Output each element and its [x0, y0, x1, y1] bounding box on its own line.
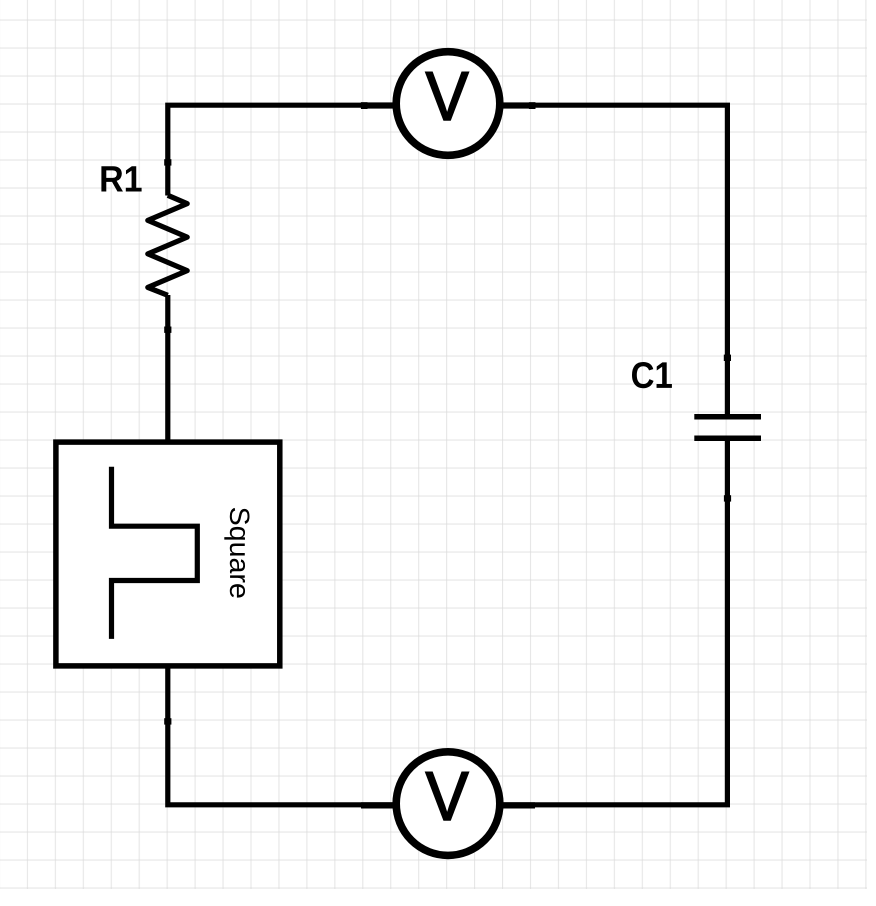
wire right-bottom: from capacitor bottom down and left to bottom voltmeter [503, 440, 728, 805]
wire joint node on left wire [164, 159, 171, 165]
wire: resistor bottom to source box top [165, 295, 170, 440]
wire joint dot right of top voltmeter [529, 102, 536, 109]
wire stub at top voltmeter left terminal [361, 102, 394, 108]
label C1 [632, 362, 672, 388]
wire bottom-left corner: from bottom voltmeter left to source box bottom [168, 668, 394, 805]
wire stub at bottom voltmeter left terminal [361, 802, 394, 808]
wire joint node above capacitor [724, 355, 731, 361]
square-wave source box [56, 442, 280, 666]
label Square (rotated) [224, 508, 249, 598]
wire joint dot left of top voltmeter [361, 102, 368, 109]
square wave glyph [112, 467, 198, 639]
wire joint node below source box [164, 718, 171, 724]
resistor R1 [148, 195, 187, 295]
wire joint node below capacitor [724, 495, 731, 501]
voltmeter V1 (top) [396, 52, 500, 156]
label R1 [101, 166, 141, 191]
wire stub at top voltmeter right terminal [502, 102, 535, 108]
wire top-left corner: from resistor top up and right to voltmeter [168, 105, 394, 195]
wire stub at bottom voltmeter right terminal [502, 802, 535, 808]
wire joint node below resistor [164, 327, 171, 333]
wire top-right corner: from voltmeter right, down right side to capacitor top [503, 105, 728, 415]
capacitor C1 [694, 417, 761, 438]
voltmeter V2 (bottom) [396, 752, 500, 856]
